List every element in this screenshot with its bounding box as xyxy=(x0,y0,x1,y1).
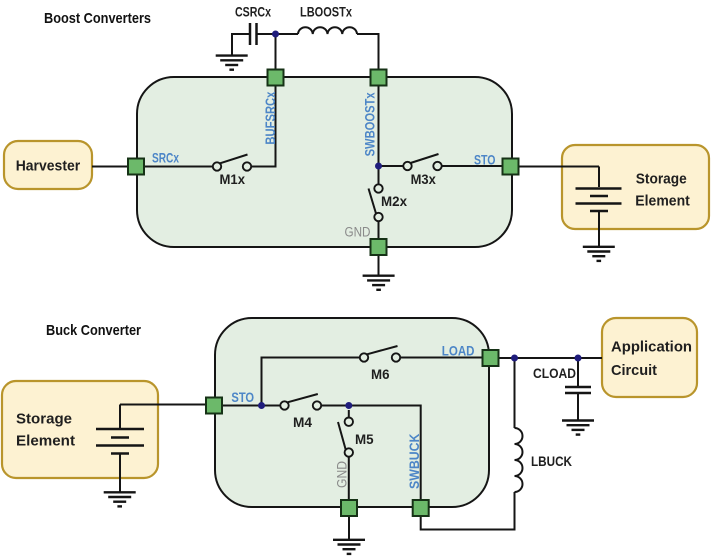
svg-text:STO: STO xyxy=(231,390,254,405)
svg-text:Buck Converter: Buck Converter xyxy=(46,322,141,339)
svg-text:Application: Application xyxy=(611,339,692,356)
svg-text:M1x: M1x xyxy=(220,172,246,187)
svg-text:Harvester: Harvester xyxy=(16,157,81,174)
svg-text:BUFSRCx: BUFSRCx xyxy=(263,91,278,144)
svg-text:M5: M5 xyxy=(355,432,374,447)
svg-text:STO: STO xyxy=(474,153,496,168)
svg-text:GND: GND xyxy=(345,225,371,240)
svg-text:Storage: Storage xyxy=(636,170,687,187)
svg-text:Element: Element xyxy=(16,433,75,450)
svg-text:SRCx: SRCx xyxy=(152,151,179,166)
svg-text:Element: Element xyxy=(635,193,690,210)
svg-text:M4: M4 xyxy=(293,415,312,430)
svg-text:CLOAD: CLOAD xyxy=(533,366,576,381)
svg-text:LBOOSTx: LBOOSTx xyxy=(300,5,352,20)
svg-text:SWBOOSTx: SWBOOSTx xyxy=(363,92,378,156)
svg-text:Circuit: Circuit xyxy=(611,362,657,379)
svg-text:M6: M6 xyxy=(371,367,390,382)
svg-text:SWBUCK: SWBUCK xyxy=(407,434,422,489)
svg-text:LBUCK: LBUCK xyxy=(531,454,572,469)
svg-text:M3x: M3x xyxy=(411,172,437,187)
svg-text:LOAD: LOAD xyxy=(442,343,475,358)
svg-text:M2x: M2x xyxy=(381,194,407,209)
svg-text:CSRCx: CSRCx xyxy=(235,5,271,20)
svg-text:GND: GND xyxy=(334,461,349,488)
svg-text:Storage: Storage xyxy=(16,411,72,428)
svg-text:Boost Converters: Boost Converters xyxy=(44,10,151,27)
